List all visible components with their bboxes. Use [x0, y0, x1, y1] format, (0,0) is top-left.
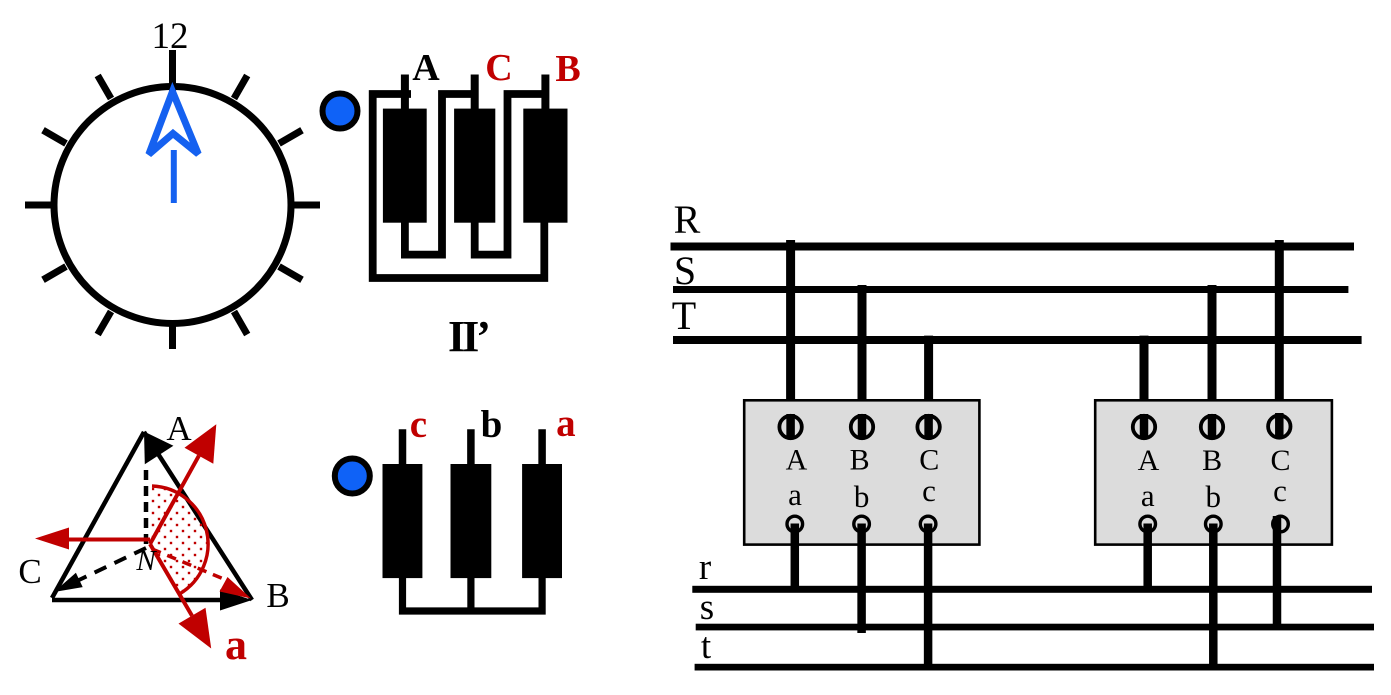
svg-text:N: N [135, 545, 157, 577]
clock tick 11 o'clock [98, 76, 111, 99]
wire T to T2 terminal A [1140, 336, 1149, 434]
T2 terminal C lead into circle [1275, 413, 1284, 438]
clock face circle [54, 87, 291, 324]
terminal stub B [541, 75, 549, 121]
svg-text:c: c [410, 403, 427, 446]
terminal stub c [399, 429, 407, 475]
svg-text:b: b [854, 479, 870, 514]
clock tick 8 o'clock [43, 267, 66, 280]
T1 terminal B lead into circle [858, 414, 867, 438]
svg-text:II’: II’ [448, 312, 488, 361]
svg-text:r: r [699, 547, 711, 588]
wire T2 b to bus t [1209, 524, 1218, 669]
terminal stub a [538, 429, 546, 475]
T1 terminal circle B [851, 416, 873, 438]
polarity dot (primary winding) [323, 94, 358, 129]
clock tick 3 o'clock [293, 202, 321, 209]
T2 terminal circle C [1268, 415, 1290, 437]
T2 terminal circle B [1201, 416, 1223, 438]
T1 secondary terminal circle c [920, 516, 936, 532]
svg-text:B: B [266, 576, 289, 615]
clock tick 5 o'clock [234, 312, 247, 335]
red dashed phasor N to B [152, 549, 226, 580]
wire delta link: coil-A bottom to C terminal [405, 94, 475, 255]
phasor arrowhead at A (vector B to A) [144, 432, 173, 465]
bus S [673, 286, 1348, 293]
T2 terminal B lead into circle [1208, 414, 1217, 438]
T1 secondary terminal circle a [787, 516, 803, 532]
phasor triangle side B-A [144, 432, 252, 600]
svg-text:B: B [850, 444, 870, 477]
svg-text:A: A [412, 47, 440, 89]
wire star (neutral bar) connecting coil bottoms [403, 576, 543, 611]
wire T1 c to bus t [924, 524, 933, 669]
wire R to T2 terminal C [1275, 240, 1284, 434]
red arrowhead left [35, 528, 69, 550]
clock tick 12 o'clock [169, 50, 176, 92]
bus T [673, 336, 1362, 344]
red arrowhead to B [220, 577, 252, 599]
polarity dot (secondary winding) [335, 459, 370, 494]
phasor triangle side C-A [52, 432, 144, 598]
svg-text:B: B [555, 48, 580, 90]
bus R [671, 243, 1355, 251]
transformer T1 box [744, 400, 979, 544]
terminal stub b [467, 429, 475, 475]
red arc of sector [152, 486, 208, 594]
T2 secondary terminal circle a [1140, 516, 1156, 532]
dashed line A to N [144, 470, 149, 545]
svg-text:a: a [788, 477, 802, 512]
red phasor N to left [65, 538, 150, 542]
secondary winding coil c [383, 464, 423, 578]
T1 secondary terminal circle b [854, 516, 870, 532]
T2 terminal circle A [1133, 416, 1155, 438]
terminal stub A [401, 75, 409, 121]
T1 terminal circle A [779, 416, 801, 438]
bus s [696, 624, 1374, 631]
wire T1 a to bus r [791, 524, 800, 590]
svg-text:b: b [481, 403, 503, 446]
svg-text:a: a [225, 620, 247, 669]
clock hand arrowhead (blue outlined) [149, 92, 199, 155]
svg-text:a: a [556, 402, 576, 445]
svg-text:t: t [701, 626, 712, 667]
primary winding coil C (middle limb) [454, 109, 495, 223]
clock tick 2 o'clock [279, 130, 302, 143]
T2 secondary terminal circle c [1273, 516, 1289, 532]
wire R to T1 terminal A [786, 240, 795, 434]
svg-text:a: a [1141, 478, 1155, 513]
clock tick 4 o'clock [279, 267, 302, 280]
bus r [692, 586, 1372, 593]
wire S to T2 terminal B [1208, 285, 1217, 434]
T1 terminal circle C [917, 416, 939, 438]
dotted sector (phase shift angle at N) [150, 486, 208, 594]
secondary winding coil b [451, 464, 492, 578]
primary winding coil B (right limb) [523, 109, 567, 223]
clock tick 10 o'clock [43, 130, 66, 143]
wire S to T1 terminal B [858, 285, 867, 434]
wire delta outer loop: A top to coil-B bottom [373, 94, 545, 278]
red arrowhead to a [179, 608, 212, 649]
arrowhead N to C [54, 573, 83, 592]
phasor triangle side C-B (bottom) [52, 598, 236, 603]
wire T1 b to bus s [857, 524, 866, 634]
T2 terminal A lead into circle [1140, 414, 1149, 438]
svg-text:B: B [1202, 444, 1222, 477]
svg-text:R: R [674, 197, 701, 242]
clock hand shaft [171, 150, 177, 203]
red arrowhead up-right [185, 424, 217, 464]
svg-text:C: C [485, 47, 512, 89]
svg-text:T: T [672, 293, 696, 338]
wire T2 a to bus r [1143, 524, 1152, 590]
clock tick 6 o'clock [169, 322, 176, 349]
red phasor N up-right (secondary A') [150, 456, 199, 544]
wire T to T1 terminal C [924, 336, 933, 434]
svg-text:A: A [1138, 444, 1160, 477]
svg-text:C: C [18, 552, 41, 591]
phasor arrowhead at B (vector C to B) [220, 590, 252, 611]
clock tick 1 o'clock [234, 76, 247, 99]
T1 terminal A lead into circle [786, 414, 795, 438]
primary winding coil A (phase A limb) [383, 109, 427, 223]
wire star middle stub [467, 576, 474, 611]
wire delta link: coil-C bottom to B terminal [475, 94, 546, 255]
svg-text:A: A [786, 444, 808, 477]
dashed arrow N to C [79, 548, 146, 580]
bus t [695, 664, 1374, 671]
svg-text:b: b [1206, 479, 1222, 514]
svg-text:c: c [1273, 473, 1287, 508]
secondary winding coil a [522, 464, 562, 578]
terminal stub C [471, 75, 479, 121]
svg-text:S: S [674, 248, 696, 293]
transformer T2 box [1095, 400, 1332, 544]
svg-text:s: s [700, 587, 714, 628]
red phasor N to a (down-right) [150, 544, 192, 616]
svg-text:12: 12 [152, 16, 189, 57]
wire T2 c to bus s [1273, 516, 1282, 630]
T2 secondary terminal circle b [1206, 516, 1222, 532]
clock tick 7 o'clock [98, 312, 111, 335]
svg-text:A: A [166, 409, 192, 448]
T1 terminal C lead into circle [924, 414, 933, 438]
clock tick 9 o'clock [25, 202, 53, 209]
svg-text:c: c [922, 473, 936, 508]
svg-text:C: C [919, 444, 939, 477]
